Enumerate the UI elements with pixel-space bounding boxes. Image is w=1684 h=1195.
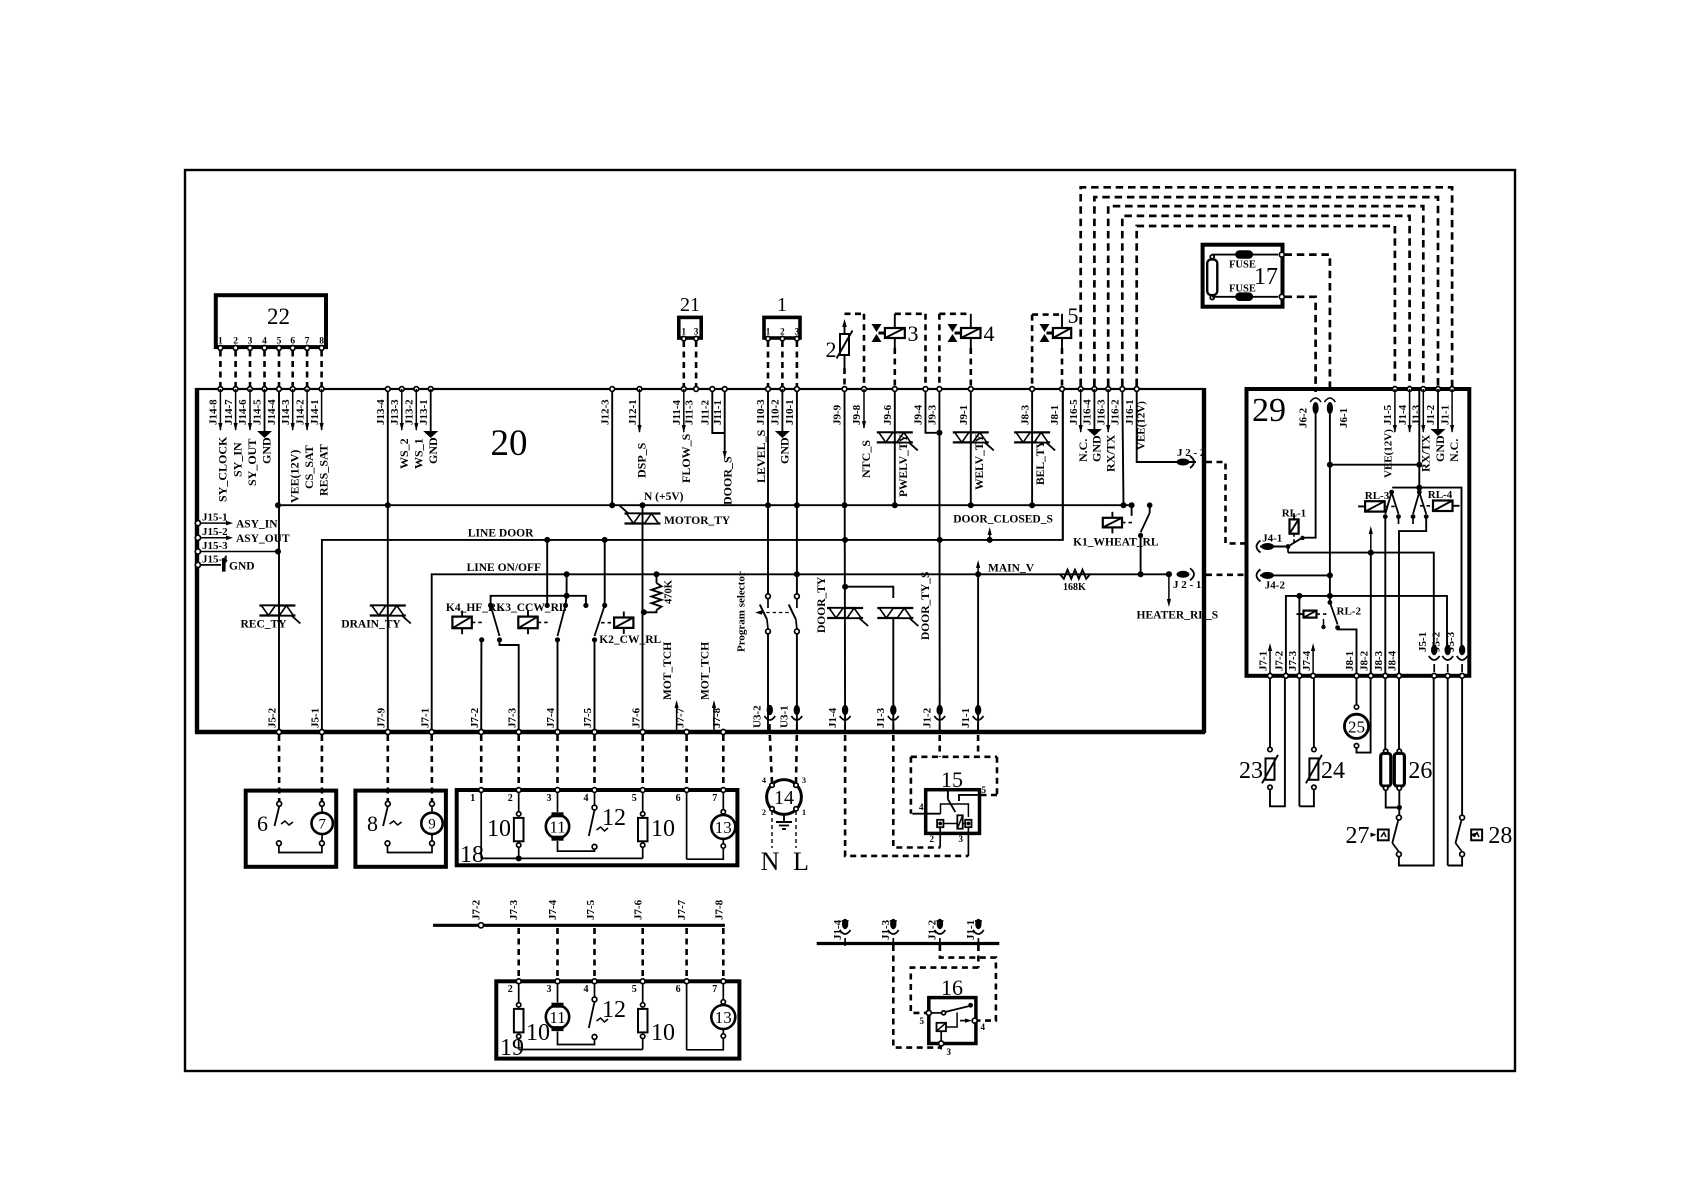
wire J1-3 L-path to relay 15 pin2 <box>893 735 940 848</box>
svg-text:7: 7 <box>318 817 326 833</box>
svg-text:CS_SAT: CS_SAT <box>302 445 316 489</box>
lamp 7 <box>312 813 333 834</box>
node J16-4 <box>1092 387 1097 392</box>
lamp 9 top lead <box>430 801 435 806</box>
svg-text:J5-3: J5-3 <box>1445 631 1457 652</box>
junction LINE ON/OFF at 470K <box>654 571 660 577</box>
ground J1-2 lead <box>1437 389 1439 429</box>
svg-text:22: 22 <box>267 304 290 329</box>
svg-text:J1-4: J1-4 <box>827 707 839 728</box>
wire U3-1 selector switch lower <box>796 634 798 732</box>
switch 27 arrow <box>1371 833 1377 837</box>
relay 16 blade pivot <box>942 1011 946 1015</box>
svg-text:K3_CCW_RL: K3_CCW_RL <box>496 602 567 614</box>
wire U3-2 selector switch lower <box>767 634 769 732</box>
switch 28 bottom node <box>1460 852 1465 857</box>
svg-text:J7-4: J7-4 <box>1301 650 1313 671</box>
wire J4-1 lead <box>1260 546 1288 548</box>
wire 24 loop <box>1299 790 1314 807</box>
wire RL-2 to J8-1 <box>1338 628 1357 676</box>
connector 1 pin 1 circle <box>766 336 770 340</box>
contact K4 throw <box>497 637 502 642</box>
svg-text:J7-1: J7-1 <box>419 708 431 728</box>
wire J15-3 <box>201 551 279 553</box>
wire fuse to J6-2 <box>1285 297 1316 392</box>
svg-text:GND: GND <box>1433 435 1447 462</box>
svg-text:J6-2: J6-2 <box>1298 407 1310 428</box>
junction N(+5V) at J16-2 <box>1121 502 1127 508</box>
switch 8 blade <box>383 807 388 827</box>
socket U3-1 <box>794 705 800 715</box>
outer border frame <box>185 170 1515 1071</box>
wire DOOR_TY_S to J1-3 <box>892 618 894 732</box>
wire RL-1 to row <box>1287 547 1289 553</box>
relay 16 pin4 node <box>972 1018 977 1023</box>
svg-text:1: 1 <box>802 808 806 817</box>
node J10-3 <box>766 387 771 392</box>
svg-text:1: 1 <box>470 793 475 804</box>
triac DRAIN_TY <box>370 604 406 606</box>
node J14-7 <box>233 387 238 392</box>
wire 18 bottom rail <box>481 857 643 859</box>
svg-text:6: 6 <box>257 811 268 836</box>
svg-text:J7-3: J7-3 <box>508 899 520 920</box>
junction N(+5V) at motor line <box>640 502 646 508</box>
junction feed at y465 <box>1416 462 1422 468</box>
contact RL-4 blade b <box>1419 492 1426 514</box>
svg-text:29: 29 <box>1252 392 1286 429</box>
svg-text:3: 3 <box>547 984 552 995</box>
relay 16 coil to pin3 <box>940 1031 942 1043</box>
switch 6 blade <box>275 807 280 827</box>
resistor 168K <box>1060 570 1090 579</box>
relay K1_WHEAT_RL coil <box>1103 518 1122 528</box>
contact RL-3 throw b <box>1396 514 1401 519</box>
node J1-1 (box29) <box>1450 387 1455 392</box>
signal arrow J1-5 <box>1394 389 1396 432</box>
relay RL-4 coil <box>1433 501 1453 512</box>
wire J1-4 L-path to relay 15 pin3 <box>845 735 968 856</box>
svg-text:DOOR_TY: DOOR_TY <box>816 576 828 633</box>
wire J6-2 down <box>1304 408 1316 538</box>
junction J6-1 y465 <box>1327 462 1333 468</box>
svg-text:BEL_TY: BEL_TY <box>1035 440 1047 485</box>
svg-text:7: 7 <box>712 984 717 995</box>
svg-text:J8-1: J8-1 <box>1049 405 1061 425</box>
wire K3 throw to J7-4 <box>557 640 559 732</box>
valve 5 body <box>1040 324 1050 332</box>
wire connector 22 pin 4 to J14-5 <box>263 351 266 387</box>
wire J7-1 down <box>1269 678 1271 747</box>
svg-text:5: 5 <box>1068 303 1079 328</box>
junction N(+5V) at PWELV line <box>892 502 898 508</box>
relay 16 pin3 node <box>939 1041 944 1046</box>
lamp 9 bottom lead <box>431 834 433 841</box>
wire J9-9/DOOR_TY/J1-4 line <box>844 391 847 732</box>
node J14-6 <box>248 387 253 392</box>
svg-text:25: 25 <box>1348 717 1365 736</box>
node J7-4 (box29 bottom) <box>1311 673 1316 678</box>
wire J10-3 down <box>767 391 769 574</box>
wire J5-1 to lamp 7 <box>321 735 324 801</box>
wire J15-4 <box>201 564 222 566</box>
node J9-6 <box>892 387 897 392</box>
bus socket J1-4 <box>842 919 848 929</box>
node J5-3 (box29 bottom) <box>1460 673 1465 678</box>
junction LINE DOOR at DOOR_CLOSED_S <box>987 537 993 543</box>
junction K1 on heater line <box>1138 571 1144 577</box>
harness wire J16-5 to J1-1 <box>1081 187 1452 386</box>
wire 27 to J5-1 <box>1399 678 1434 866</box>
triac REC_TY <box>259 604 295 606</box>
wire K2 throw to J7-5 <box>594 640 596 732</box>
wire N(+5V) rail <box>278 504 1132 506</box>
wire J5-3 down <box>1461 678 1463 815</box>
svg-text:FLOW_S: FLOW_S <box>679 433 693 483</box>
triac BEL_TY <box>1014 431 1050 433</box>
svg-text:J7-1: J7-1 <box>1258 651 1270 671</box>
node J7-4 (bottom edge) <box>555 730 560 735</box>
wire LINE ON/OFF rail <box>432 574 1169 732</box>
svg-text:J14-6: J14-6 <box>237 399 249 425</box>
component 2 dashed box top <box>845 312 865 315</box>
node J10-1 <box>795 387 800 392</box>
ground J1-2 symbol <box>1431 429 1446 436</box>
node J5-2 (bottom edge) <box>277 730 282 735</box>
svg-text:5: 5 <box>632 984 637 995</box>
relay 15 contact 2 square <box>937 820 943 827</box>
wire U3-1 selector switch upper <box>796 574 798 594</box>
relay 15 pin1 blade <box>948 799 955 812</box>
signal RES_SAT arrow <box>321 389 323 430</box>
switch 12 (19) bottom node <box>592 1035 597 1040</box>
svg-text:3: 3 <box>947 1047 952 1057</box>
svg-text:J14-3: J14-3 <box>280 399 292 425</box>
svg-text:J7-6: J7-6 <box>632 899 644 920</box>
svg-text:4: 4 <box>981 1022 986 1032</box>
svg-text:168K: 168K <box>1063 582 1086 593</box>
svg-text:PWELV_TY: PWELV_TY <box>898 433 910 497</box>
node J5-2 (box29 bottom) <box>1445 673 1450 678</box>
box 19 pin 6 node <box>684 979 689 984</box>
svg-text:J9-6: J9-6 <box>882 404 894 425</box>
wire bus J7 to box 19 at x=594.5 <box>593 928 596 978</box>
node J1-4 (box29) <box>1407 387 1412 392</box>
socket J1-4 <box>842 705 848 715</box>
wire 6-7 bottom <box>279 846 322 853</box>
node J7-6 (bottom edge) <box>640 730 645 735</box>
junction LINE DOOR at K3 contact <box>544 537 550 543</box>
wire J14-4/REC/J5-2 line <box>278 391 280 732</box>
junction 470K bottom <box>641 609 647 615</box>
node J12-3 <box>610 387 615 392</box>
wire fuse to J6-1 <box>1285 255 1330 392</box>
switch 12 (18) top node <box>592 805 597 810</box>
svg-text:RL-3: RL-3 <box>1365 490 1390 502</box>
svg-text:FUSE: FUSE <box>1229 284 1256 295</box>
junction J9-4/J9-3 <box>936 430 942 436</box>
svg-text:J7-8: J7-8 <box>714 899 726 920</box>
fuse right node bottom <box>1279 294 1284 299</box>
switch 8 bottom node <box>385 841 390 846</box>
socket U3-2 <box>767 705 773 715</box>
relay 16 blade end dot <box>968 1003 973 1008</box>
U3-2 selector switch fixed stub <box>767 599 769 608</box>
node J15-2 <box>195 535 200 540</box>
ground J16-4 symbol <box>1087 429 1102 436</box>
svg-text:J9-1: J9-1 <box>958 405 970 425</box>
contact K2 throw <box>592 637 597 642</box>
wire row J4-1 to J5-1 <box>1288 553 1434 649</box>
socket J1-1 <box>975 705 981 715</box>
svg-text:J13-1: J13-1 <box>418 399 430 425</box>
junction J12-3 on N(+5V) <box>609 502 615 508</box>
connector 1 box <box>764 317 800 338</box>
switch 28 top node <box>1460 815 1465 820</box>
svg-text:10: 10 <box>651 816 675 842</box>
svg-text:5: 5 <box>920 1016 925 1026</box>
socket J1-2 <box>937 705 943 715</box>
node J14-1 <box>319 387 324 392</box>
node J1-2 (box29) <box>1436 387 1441 392</box>
switch 12 (18) blade <box>589 810 595 836</box>
U3-1 selector switch fixed stub <box>796 599 798 608</box>
svg-text:J15-2: J15-2 <box>202 526 228 538</box>
supply 14 terminal 1 <box>794 807 798 811</box>
svg-text:ASY_OUT: ASY_OUT <box>236 533 290 545</box>
svg-text:J7-7: J7-7 <box>676 899 688 920</box>
wire box20 pin x=642.7 to box 18 <box>641 735 644 787</box>
node J8-1 (box29 bottom) <box>1354 673 1359 678</box>
switch 6 top node <box>277 801 282 806</box>
svg-text:12: 12 <box>602 997 626 1023</box>
signal HEATER_RL_S arrow <box>1168 574 1170 602</box>
node J13-3 <box>399 387 404 392</box>
svg-text:WELV_TY: WELV_TY <box>974 433 986 490</box>
valve 5 bottom stub <box>1061 338 1063 348</box>
node J7-9 (bottom edge) <box>385 730 390 735</box>
svg-text:27: 27 <box>1346 823 1370 849</box>
wire J9-4 jog <box>926 391 940 433</box>
svg-text:K2_CW_RL: K2_CW_RL <box>599 634 661 646</box>
node J7-7 (bottom edge) <box>684 730 689 735</box>
svg-text:VEE(12V): VEE(12V) <box>288 450 302 503</box>
svg-text:5: 5 <box>982 785 987 795</box>
svg-text:NTC_S: NTC_S <box>859 440 873 478</box>
contact RL-3 throw a <box>1383 514 1388 519</box>
supply 14 terminal 2 <box>770 807 774 811</box>
box 18 pin 4 node <box>592 788 597 793</box>
relay 15 pin2 stub <box>939 827 941 847</box>
contact K1 fixed 1 <box>1129 502 1135 508</box>
svg-text:J5-2: J5-2 <box>267 707 279 728</box>
wire connector 22 pin 2 to J14-7 <box>234 351 237 387</box>
svg-text:FUSE: FUSE <box>1229 260 1256 271</box>
svg-text:2: 2 <box>930 834 935 844</box>
wire J1-3 through edge <box>892 724 894 734</box>
svg-text:SY_OUT: SY_OUT <box>245 439 259 486</box>
switch 6 bottom node <box>277 841 282 846</box>
wire K3 NC drop <box>546 540 548 603</box>
wire box20 pin x=686.6 to box 18 <box>685 735 688 787</box>
junction N(+5V) at WELV line <box>968 502 974 508</box>
wire box20 pin x=557.5 to box 18 <box>556 735 559 787</box>
svg-text:24: 24 <box>1321 758 1345 784</box>
svg-text:13: 13 <box>715 818 732 837</box>
signal WS_2 arrow <box>401 389 403 430</box>
resistor 10 (18 pin2) <box>517 812 521 816</box>
signal MOT_TCH arrow (J7-8) <box>713 703 715 730</box>
signal DOOR_S arrowhead <box>723 451 727 459</box>
box 18 pin 5 node <box>640 788 645 793</box>
relay 15 dashed right edge <box>996 757 999 795</box>
junction J15-3 on REC line <box>275 549 281 555</box>
svg-text:2: 2 <box>826 337 837 362</box>
node J11-2 <box>710 387 715 392</box>
svg-text:J7-4: J7-4 <box>547 899 559 920</box>
unit box 8-9 <box>355 791 446 867</box>
wire 8-9 bottom <box>388 846 433 853</box>
junction LINE DOOR at DOOR_TY <box>842 537 848 543</box>
svg-text:20: 20 <box>491 423 528 464</box>
relay 16 inner wire pin5 <box>931 1012 941 1014</box>
wire 19 rail <box>519 1049 643 1051</box>
svg-text:Program selector: Program selector <box>736 571 748 652</box>
lamp 13 (19) <box>711 1005 735 1029</box>
junction LINE DOOR at K2 contact <box>602 537 608 543</box>
connector 22 pin 4 circle <box>262 346 267 351</box>
fuse top wire <box>1212 254 1278 256</box>
signal WS_1 arrow <box>415 389 417 430</box>
svg-text:J1-1: J1-1 <box>965 920 977 940</box>
contact RL-3 blade b <box>1392 492 1399 514</box>
wire U3-1 through edge <box>796 724 798 734</box>
supply 14 ground lead <box>783 814 785 822</box>
relay 16 box <box>929 998 976 1044</box>
svg-text:L: L <box>793 847 809 876</box>
node J7-3 (box29 bottom) <box>1297 673 1302 678</box>
svg-text:J10-1: J10-1 <box>784 399 796 425</box>
node J13-2 <box>414 387 419 392</box>
connector 22 pin 5 circle <box>277 346 282 351</box>
svg-text:J1-3: J1-3 <box>875 707 887 728</box>
node J7-1 (box29 bottom) <box>1268 673 1273 678</box>
component 2 dashed lead to J9-9 <box>843 368 846 386</box>
junction N(+5V) at J10-1 line <box>794 502 800 508</box>
relay 15 dashed top edge <box>911 755 997 758</box>
contact RL-1 blade <box>1288 538 1302 546</box>
svg-text:J1-1: J1-1 <box>1439 405 1451 425</box>
contact RL-4 blade a <box>1413 492 1419 514</box>
relay 16 blade <box>946 1006 969 1012</box>
U3-1 selector switch blade <box>789 605 796 620</box>
node J9-4 <box>923 387 928 392</box>
svg-text:GND: GND <box>778 437 792 464</box>
switch 12 (19) top node <box>592 997 597 1002</box>
wire J1-2 through edge <box>939 724 941 734</box>
node J11-3 <box>694 387 699 392</box>
svg-text:J14-5: J14-5 <box>252 399 264 425</box>
svg-text:RL-2: RL-2 <box>1337 606 1362 618</box>
signal DSP_S arrow <box>639 389 641 432</box>
node J8-1 <box>1060 387 1065 392</box>
signal SY_CLOCK arrow <box>219 389 221 430</box>
box 19 pin 2 node <box>516 979 521 984</box>
wire K4 throw to J7-3 <box>500 640 519 732</box>
svg-text:J4-1: J4-1 <box>1262 532 1282 544</box>
signal arrow J8-2 up <box>1370 530 1372 553</box>
switch 28 arrow <box>1470 833 1476 837</box>
lamp 25 <box>1354 705 1358 709</box>
svg-text:J5-2: J5-2 <box>1430 631 1442 652</box>
junction DOOR_TY bar <box>842 584 848 590</box>
component 5 dashed left edge to J8-3 <box>1031 315 1034 386</box>
thermistor 23 body <box>1268 747 1272 751</box>
socket J4-1 <box>1261 543 1274 550</box>
svg-text:VEE(12V): VEE(12V) <box>1383 429 1395 478</box>
wire MOTOR line to J7-6 <box>642 505 644 732</box>
stub RL-4 throw a <box>1412 517 1414 524</box>
bus J7 line <box>433 924 725 927</box>
fuse right node top <box>1279 252 1284 257</box>
svg-text:DSP_S: DSP_S <box>635 442 649 478</box>
node J8-4 (box29 bottom) <box>1397 673 1402 678</box>
wire J7-3 down <box>1298 678 1300 806</box>
socket J6-2 <box>1313 402 1319 414</box>
svg-text:J13-2: J13-2 <box>404 399 416 425</box>
svg-text:MOT_TCH: MOT_TCH <box>662 642 674 700</box>
svg-text:N.C.: N.C. <box>1076 439 1090 462</box>
wire box20 pin x=518.7 to box 18 <box>517 735 520 787</box>
ground J10-2 symbol <box>775 431 790 438</box>
relay 16 pin5 node <box>926 1010 931 1015</box>
lamp 9 <box>421 813 442 834</box>
component 2 dashed right edge / wire to J9-8 <box>863 314 866 386</box>
svg-text:GND: GND <box>426 437 440 464</box>
U3-2 selector switch top contact <box>766 594 771 599</box>
contact K4 pivot <box>488 603 493 608</box>
wire bus J7 to box 19 at x=686.6 <box>685 928 688 978</box>
svg-text:10: 10 <box>487 816 511 842</box>
valve 4 bottom stub <box>970 338 972 348</box>
node J12-1 <box>637 387 642 392</box>
svg-text:2: 2 <box>508 984 513 995</box>
valve 3 bottom stub <box>894 338 896 348</box>
relay 16 armature <box>946 1013 957 1028</box>
contact K4 NO <box>479 637 484 642</box>
harness wire J16-2 to J1-4 <box>1122 216 1409 386</box>
svg-text:10: 10 <box>651 1020 675 1046</box>
svg-text:4: 4 <box>584 984 589 995</box>
connector 22 box <box>216 295 326 347</box>
wire supply N dash <box>771 811 773 848</box>
relay 15 coil <box>957 815 962 828</box>
socket J4-2 <box>1261 572 1274 579</box>
component 2 NTC body <box>840 334 849 355</box>
valve 5 top stub <box>1061 314 1063 328</box>
connector J2-1 socket <box>1177 571 1190 578</box>
svg-text:J1-5: J1-5 <box>1382 404 1394 425</box>
signal ASY_IN arrowhead <box>226 521 233 526</box>
svg-text:J1-3: J1-3 <box>1411 404 1423 425</box>
relay 15 inner frame <box>941 804 969 817</box>
svg-text:J12-3: J12-3 <box>600 399 612 425</box>
wire motor 11 bottom (19) <box>558 1031 595 1044</box>
svg-text:SY_IN: SY_IN <box>231 442 245 477</box>
wire PWELV line <box>894 391 896 505</box>
node J1-3 (box29) <box>1421 387 1426 392</box>
switch 27 blade <box>1392 820 1398 843</box>
